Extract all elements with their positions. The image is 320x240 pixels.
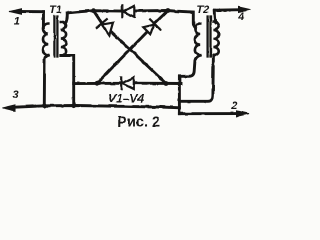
wire: right diagonal (node B to node C) xyxy=(97,11,168,84)
node A (top-left junction dot) xyxy=(91,8,96,13)
wire: T1 primary bottom to common rail xyxy=(44,55,48,105)
wire: T2 primary bottom down-left xyxy=(179,55,200,113)
wire: T2 secondary bottom to corner xyxy=(179,56,213,102)
wire: left diagonal (node A to node D) xyxy=(94,11,167,84)
svg-text:4: 4 xyxy=(237,11,244,23)
svg-text:V1–V4: V1–V4 xyxy=(108,91,144,105)
terminal arrow 4 xyxy=(214,7,250,13)
transformer T1 primary winding xyxy=(43,24,48,56)
svg-text:Рис. 2: Рис. 2 xyxy=(117,115,160,131)
transformer T2 core xyxy=(208,17,211,57)
node F (T1 secondary bottom on rail) xyxy=(71,104,76,109)
svg-text:1: 1 xyxy=(14,15,20,27)
lower bridge wire xyxy=(74,82,122,85)
common rail wire (terminal 3 bus) xyxy=(14,106,179,108)
wire: terminal 1 to T1 primary top xyxy=(42,12,45,28)
diode V1 (top horizontal, cathode left) xyxy=(122,6,134,17)
svg-text:3: 3 xyxy=(13,89,19,101)
wire xyxy=(134,82,182,85)
svg-text:T2: T2 xyxy=(196,4,209,16)
transformer T1 secondary winding xyxy=(61,22,66,56)
node B (top-right junction dot) xyxy=(166,8,171,13)
node C (junction dot, right diagonal on lower wire) xyxy=(95,81,100,86)
wire xyxy=(134,11,195,29)
diode V4 (lower horizontal, cathode left) xyxy=(121,77,134,89)
transformer T2 secondary winding xyxy=(213,22,218,56)
transformer T2 primary winding xyxy=(195,24,200,56)
node E (T1 primary bottom on rail) xyxy=(42,103,47,108)
svg-text:T1: T1 xyxy=(49,4,62,16)
diode V3 (on right diagonal, cathode toward node B) xyxy=(143,19,160,34)
terminal arrow 1 xyxy=(10,9,44,15)
top bus wire (T1 secondary top to T2 primary top) xyxy=(67,11,122,13)
terminal arrow 3 xyxy=(3,105,16,111)
diode V2 (on left diagonal, cathode toward node A) xyxy=(96,19,113,35)
wire: T2 secondary top to terminal 4 xyxy=(214,10,216,23)
node D (junction dot, left diagonal on lower wire) xyxy=(164,81,169,86)
svg-text:2: 2 xyxy=(230,100,237,112)
wire: T1 secondary top to top bus xyxy=(65,13,67,23)
transformer T1 core xyxy=(54,17,57,57)
wire: T1 secondary bottom down to common rail xyxy=(61,56,74,106)
terminal arrow 2 xyxy=(179,111,249,117)
